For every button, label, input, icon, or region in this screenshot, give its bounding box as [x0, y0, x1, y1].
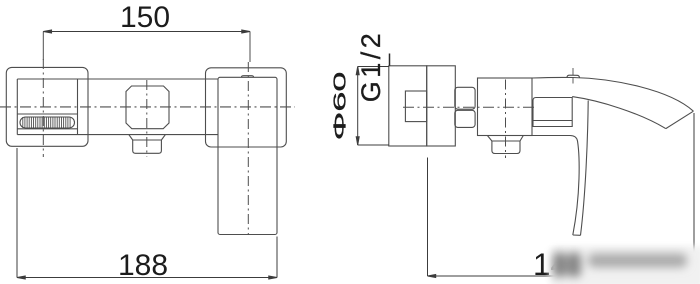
svg-text:G1/2: G1/2 — [356, 30, 386, 103]
svg-text:188: 188 — [118, 249, 168, 282]
svg-text:150: 150 — [120, 1, 170, 34]
svg-text:Φ60: Φ60 — [330, 72, 350, 141]
